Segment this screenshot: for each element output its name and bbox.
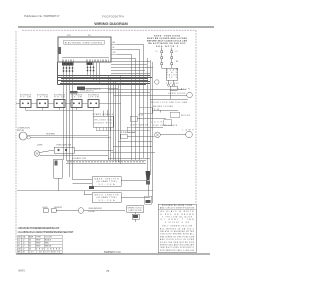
svg-text:RE-IGNITION: RE-IGNITION xyxy=(95,120,113,122)
svg-text:LOCK MOTOR: LOCK MOTOR xyxy=(80,91,94,93)
svg-text:SEW: SEW xyxy=(36,243,41,245)
svg-text:12: 12 xyxy=(23,240,25,242)
svg-text:76: 76 xyxy=(106,269,110,273)
svg-text:V VIOLET O OR: V VIOLET O OR xyxy=(165,222,190,224)
svg-text:SERVICING AND GROUNDING: SERVICING AND GROUNDING xyxy=(160,244,195,247)
svg-text:L2: L2 xyxy=(18,243,20,245)
svg-text:30: 30 xyxy=(29,246,31,248)
svg-text:RED: RED xyxy=(45,243,50,245)
svg-text:SEE NOTE 3: SEE NOTE 3 xyxy=(156,46,179,48)
svg-text:3.3 - 3.6 A: 3.3 - 3.6 A xyxy=(99,183,116,186)
svg-text:UNLESS OTHERWISE NOTED: UNLESS OTHERWISE NOTED xyxy=(160,231,195,233)
svg-text:MUST BE CLOSED AND LOCKED: MUST BE CLOSED AND LOCKED xyxy=(147,37,187,40)
svg-text:30: 30 xyxy=(29,240,31,242)
svg-text:CONNECTOR: CONNECTOR xyxy=(72,158,87,160)
svg-text:SPARK MOD: SPARK MOD xyxy=(95,121,113,124)
svg-text:12V DSI: 12V DSI xyxy=(166,83,179,85)
svg-text:120V OVEN LIGHTS: 120V OVEN LIGHTS xyxy=(153,125,178,127)
svg-text:OVEN SENSOR: OVEN SENSOR xyxy=(88,208,103,210)
svg-text:POSITION SEE NOTES FOR: POSITION SEE NOTES FOR xyxy=(160,242,195,244)
svg-text:120 V: 120 V xyxy=(166,77,177,79)
svg-text:SWITCHES IN OFF POSITION: SWITCHES IN OFF POSITION xyxy=(160,236,195,238)
svg-text:FOR SERVICE CALL 1-800-944: FOR SERVICE CALL 1-800-944 xyxy=(160,249,194,252)
svg-text:WIRING DIAGRAM: WIRING DIAGRAM xyxy=(94,21,128,26)
svg-text:SEW: SEW xyxy=(36,246,41,248)
svg-text:BAKE IGNITOR: BAKE IGNITOR xyxy=(95,177,120,180)
svg-text:W: W xyxy=(113,47,115,49)
svg-text:IGNITOR SW: IGNITOR SW xyxy=(129,210,142,212)
svg-text:L.R. SW: L.R. SW xyxy=(71,97,82,99)
svg-text:CTR SW: CTR SW xyxy=(88,97,99,99)
svg-text:GN-Y GREEN-YELLOW: GN-Y GREEN-YELLOW xyxy=(162,226,192,228)
svg-text:(GLOBAR TYPE): (GLOBAR TYPE) xyxy=(97,180,117,183)
svg-text:BK BLACK W WHITE: BK BLACK W WHITE xyxy=(161,210,195,213)
svg-text:BEFORE SELF CLEAN CYCLE CAN: BEFORE SELF CLEAN CYCLE CAN xyxy=(147,40,187,43)
svg-text:SHOWN CLOSED: SHOWN CLOSED xyxy=(153,106,174,108)
svg-text:L1: L1 xyxy=(156,51,158,53)
svg-text:AND CIRCUIT IDENTIFICATION: AND CIRCUIT IDENTIFICATION xyxy=(160,207,195,210)
svg-text:DOOR LOCK SWITCH CAM: DOOR LOCK SWITCH CAM xyxy=(151,101,187,104)
svg-text:PLUG: PLUG xyxy=(139,115,145,117)
svg-text:BkR9: BkR9 xyxy=(19,269,26,273)
svg-text:LIGHT SWITCH: LIGHT SWITCH xyxy=(130,125,149,127)
svg-text:W: W xyxy=(176,69,178,71)
svg-text:30: 30 xyxy=(29,249,31,251)
svg-text:SEW: SEW xyxy=(36,240,41,242)
svg-text:2. ALL WIRING 18 GA. UNLESS OT: 2. ALL WIRING 18 GA. UNLESS OTHERWISE SP… xyxy=(18,231,75,234)
svg-text:Publication No. 5995598717: Publication No. 5995598717 xyxy=(24,14,60,18)
svg-text:MOTOR: MOTOR xyxy=(181,115,191,117)
svg-text:12: 12 xyxy=(23,246,25,248)
svg-text:HI SPEED: HI SPEED xyxy=(46,133,55,135)
svg-text:FGGF3036TFA: FGGF3036TFA xyxy=(102,15,124,19)
svg-text:CIRCUITS SHOWN WITH ALL: CIRCUITS SHOWN WITH ALL xyxy=(160,233,194,236)
svg-text:GY GRAY T TAN: GY GRAY T TAN xyxy=(161,218,195,221)
svg-text:18: 18 xyxy=(23,252,25,254)
svg-text:12: 12 xyxy=(23,243,25,245)
svg-text:BE ACTIVATED ON THE EOC: BE ACTIVATED ON THE EOC xyxy=(149,42,186,45)
svg-text:BLACK: BLACK xyxy=(45,239,52,242)
svg-text:BROIL IGNITOR: BROIL IGNITOR xyxy=(95,194,120,196)
svg-text:5995598717-C8: 5995598717-C8 xyxy=(104,252,121,254)
svg-text:COLOR: COLOR xyxy=(45,237,52,239)
svg-text:L.F. SW: L.F. SW xyxy=(37,97,48,99)
svg-text:L1: L1 xyxy=(18,240,20,242)
svg-text:SPARK MODULE: SPARK MODULE xyxy=(93,113,115,116)
svg-text:AND DOOR LOCK IN OPEN: AND DOOR LOCK IN OPEN xyxy=(160,238,195,241)
svg-text:L2: L2 xyxy=(176,51,178,53)
svg-text:OVEN DOOR: OVEN DOOR xyxy=(168,93,186,95)
svg-text:PROBE: PROBE xyxy=(88,211,95,213)
svg-text:ALL WIRING 18 GA 105 C: ALL WIRING 18 GA 105 C xyxy=(160,227,195,230)
svg-text:SPARK ELECT: SPARK ELECT xyxy=(128,206,144,209)
svg-text:SW: SW xyxy=(154,109,159,111)
svg-text:1. DISCONNECT POWER BEFORE SER: 1. DISCONNECT POWER BEFORE SERVICING UNI… xyxy=(18,228,61,230)
svg-text:WHITE: WHITE xyxy=(45,246,52,248)
svg-text:TYPE: TYPE xyxy=(36,237,42,239)
svg-text:12: 12 xyxy=(23,249,25,251)
svg-text:SEW GREEN: SEW GREEN xyxy=(36,249,61,251)
svg-text:3.3 - 3.6 A: 3.3 - 3.6 A xyxy=(99,199,116,202)
svg-text:R.F. SW: R.F. SW xyxy=(20,97,31,99)
svg-text:R.R. SW: R.R. SW xyxy=(54,97,65,99)
svg-text:ELECTRONIC OVEN CONTROL: ELECTRONIC OVEN CONTROL xyxy=(65,43,104,45)
svg-text:OVEN LIGHT SW: OVEN LIGHT SW xyxy=(56,145,71,147)
svg-text:105 C BLACK/WHITE: 105 C BLACK/WHITE xyxy=(29,251,61,254)
svg-text:LIGHT: LIGHT xyxy=(37,145,43,147)
svg-text:30: 30 xyxy=(29,243,31,245)
svg-text:(GLOBAR TYPE): (GLOBAR TYPE) xyxy=(97,196,117,199)
svg-text:MOTOR: MOTOR xyxy=(17,130,25,132)
svg-text:INSTRUCTIONS 5995598717: INSTRUCTIONS 5995598717 xyxy=(160,247,194,249)
svg-text:SPARK SW: SPARK SW xyxy=(121,131,135,134)
